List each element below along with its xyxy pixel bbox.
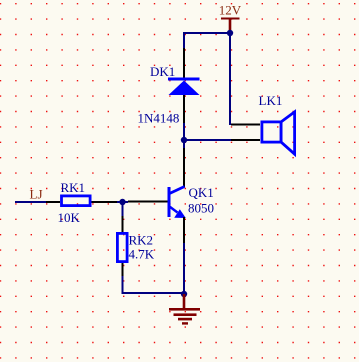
wire: RK2 bottom down <box>122 276 124 294</box>
diode DK1 pin 2 (cathode, top) <box>183 48 185 78</box>
ground <box>169 294 200 325</box>
svg-text:4.7K: 4.7K <box>129 247 155 262</box>
svg-text:LK1: LK1 <box>259 93 283 108</box>
resistor RK2 <box>117 233 127 261</box>
resistor RK2 pin 1 (top) <box>122 216 124 232</box>
wire: collector node to speaker bottom pin <box>183 139 231 141</box>
wire: diode anode to collector node <box>183 123 185 140</box>
wire: LJ input <box>15 201 46 203</box>
resistor RK1 pin 1 (left) <box>46 201 60 203</box>
junction: 12V node <box>227 30 233 36</box>
wire: 12V node to diode top <box>183 32 230 34</box>
svg-text:RK1: RK1 <box>61 180 86 195</box>
speaker LK1 pin 1 (bottom) <box>231 139 260 141</box>
power port 12V <box>219 3 242 34</box>
svg-text:LJ: LJ <box>30 187 43 202</box>
junction: collector node <box>181 137 187 143</box>
junction: base node <box>119 199 125 205</box>
resistor RK1 pin 2 (right) <box>92 201 118 203</box>
resistor RK1 <box>62 196 91 206</box>
wire: emitter to ground node <box>183 243 185 294</box>
svg-text:QK1: QK1 <box>189 185 214 200</box>
svg-text:8050: 8050 <box>188 201 214 216</box>
transistor QK1 pin B (base) <box>128 201 168 203</box>
resistor RK2 pin 2 (bottom) <box>122 263 124 276</box>
wire: vertical above diode <box>183 32 185 48</box>
wire: RK2 to ground node <box>122 292 185 294</box>
svg-text:10K: 10K <box>58 210 81 225</box>
diode DK1 pin 1 (anode, bottom) <box>183 95 185 123</box>
svg-text:DK1: DK1 <box>150 64 175 79</box>
diode DK1 <box>168 78 200 96</box>
transistor QK1 pin C (collector) <box>183 148 185 187</box>
transistor QK1 <box>168 187 186 219</box>
wire: 12V node down to speaker top pin <box>229 33 231 125</box>
transistor QK1 pin E (emitter) <box>183 217 185 243</box>
wire: collector node down <box>183 140 185 148</box>
svg-text:RK2: RK2 <box>129 233 154 248</box>
svg-text:12V: 12V <box>219 3 242 18</box>
wire: base node horizontal <box>117 201 128 203</box>
junction: ground node <box>181 291 187 297</box>
wire: base node down to RK2 <box>122 202 124 216</box>
speaker LK1 <box>262 112 295 154</box>
speaker LK1 pin 2 (top) <box>231 124 260 126</box>
svg-text:1N4148: 1N4148 <box>138 111 180 126</box>
